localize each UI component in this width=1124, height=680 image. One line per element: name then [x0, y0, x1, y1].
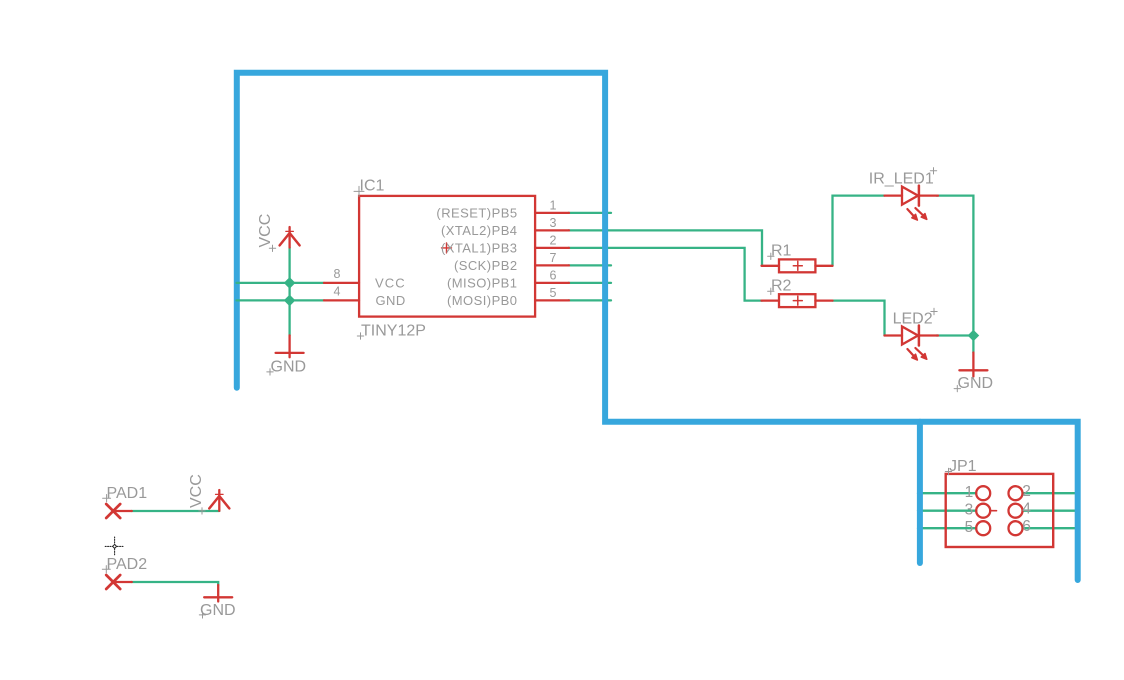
wire net PB0 pin5 to bus	[569, 299, 612, 301]
origin cross GND near PAD2	[199, 612, 205, 618]
svg-text:VCC: VCC	[375, 275, 406, 290]
IC1 pin 4	[324, 299, 359, 301]
origin cross R1	[768, 253, 774, 259]
LED2 arrowheads	[912, 354, 918, 360]
supply GND near PAD2	[204, 585, 232, 602]
origin cross R2	[768, 288, 774, 294]
JP1 pin circles	[976, 486, 1022, 535]
svg-text:PAD2: PAD2	[107, 556, 148, 573]
svg-text:8: 8	[334, 267, 341, 281]
wire JP1 pin5 to bus	[918, 527, 976, 529]
wire JP1 pin1 to bus	[918, 492, 976, 494]
IC1 pin 3	[535, 229, 569, 231]
svg-text:(RESET)PB5: (RESET)PB5	[436, 205, 517, 220]
bus main	[237, 73, 1078, 580]
svg-text:(SCK)PB2: (SCK)PB2	[454, 258, 518, 273]
svg-text:JP1: JP1	[949, 458, 977, 475]
wire VCC riser	[288, 248, 290, 283]
wire IR_LED1 cathode to GND	[937, 196, 974, 353]
svg-text:GND: GND	[271, 359, 307, 376]
bus branch	[917, 422, 923, 563]
wire net PB2 pin7 to bus	[569, 264, 612, 266]
svg-text:GND: GND	[958, 375, 994, 392]
svg-text:TINY12P: TINY12P	[361, 322, 426, 339]
IR_LED1 arrowheads	[912, 214, 918, 220]
svg-text:(XTAL2)PB4: (XTAL2)PB4	[441, 223, 518, 238]
origin cross VCC near IC1	[269, 245, 275, 251]
resistor R2	[762, 294, 833, 307]
origin cross IR_LED1	[930, 168, 936, 174]
svg-text:LED2: LED2	[893, 311, 933, 328]
junction pin4	[284, 295, 296, 307]
svg-text:R2: R2	[771, 278, 792, 295]
wire PAD2 to GND	[132, 582, 219, 585]
wire R2 to LED2	[833, 301, 885, 336]
wire LED2 cathode	[937, 334, 974, 336]
wire net PB4 pin3 to R1	[569, 230, 763, 265]
origin cross IC1	[354, 186, 364, 196]
supply GND near IC1	[276, 335, 304, 357]
svg-text:3: 3	[550, 216, 557, 230]
svg-text:4: 4	[1022, 501, 1031, 518]
svg-text:2: 2	[550, 234, 557, 248]
resistor R1	[762, 259, 833, 272]
origin cross TINY12P	[357, 333, 363, 339]
svg-text:5: 5	[965, 519, 973, 536]
origin cross JP1	[945, 468, 951, 474]
wire JP1 pin3 to bus	[918, 510, 976, 512]
svg-text:(XTAL1)PB3: (XTAL1)PB3	[441, 240, 518, 255]
origin cross PAD2	[102, 566, 110, 573]
wire PAD1 to VCC	[132, 510, 220, 512]
svg-text:R1: R1	[771, 243, 792, 260]
svg-text:VCC: VCC	[257, 214, 274, 248]
supply VCC near PAD1	[209, 490, 229, 511]
JP1 pin3 stub	[990, 510, 996, 512]
wire net GND pin4	[237, 299, 325, 301]
IC1 pin 7	[535, 264, 569, 266]
svg-text:6: 6	[1022, 518, 1030, 535]
junction LED2 cathode	[968, 330, 980, 342]
diode LED2	[885, 326, 939, 357]
svg-text:7: 7	[550, 251, 557, 265]
wire JP1 pin4 to bus	[1023, 510, 1079, 512]
svg-text:3: 3	[965, 502, 973, 519]
svg-text:1: 1	[550, 199, 557, 213]
IC1 pin 2	[535, 247, 569, 249]
IC1 box	[359, 196, 535, 317]
wire net PB5 pin1 to bus	[569, 212, 612, 214]
svg-text:GND: GND	[200, 602, 236, 619]
IC1 origin cross red	[442, 243, 452, 253]
supply VCC near IC1	[280, 227, 300, 248]
origin cross GND near IC1	[267, 369, 273, 375]
wire net PB1 pin6 to bus	[569, 282, 612, 284]
svg-text:VCC: VCC	[188, 474, 205, 508]
origin cross VCC near PAD1	[199, 508, 205, 514]
wire JP1 pin2 to bus	[1023, 492, 1079, 494]
svg-text:IC1: IC1	[360, 178, 385, 195]
svg-text:(MOSI)PB0: (MOSI)PB0	[447, 293, 518, 308]
wire net VCC pin8	[237, 282, 325, 284]
IC1 pin 1	[535, 212, 569, 214]
wire net PB3 pin2 to R2	[569, 248, 763, 301]
pad PAD2 cross	[106, 575, 132, 589]
IC1 pin 6	[535, 282, 569, 284]
svg-text:IR_LED1: IR_LED1	[869, 170, 934, 187]
diode IR_LED1	[885, 186, 939, 217]
svg-text:PAD1: PAD1	[107, 485, 148, 502]
wire R1 to IR_LED1	[833, 196, 885, 266]
wire GND dropper	[288, 283, 290, 336]
origin cross GND near LED2	[954, 385, 960, 391]
IC1 pin 5	[535, 299, 569, 301]
junction pin8	[284, 277, 296, 289]
svg-text:5: 5	[550, 286, 557, 300]
svg-text:2: 2	[1022, 483, 1030, 500]
origin cross LED2	[931, 308, 937, 314]
dotted cross near PAD2	[105, 537, 124, 556]
pad PAD1 cross	[106, 504, 132, 518]
svg-text:1: 1	[965, 484, 973, 501]
svg-text:4: 4	[334, 284, 341, 298]
wire JP1 pin6 to bus	[1023, 527, 1079, 529]
svg-text:(MISO)PB1: (MISO)PB1	[447, 275, 518, 290]
supply GND near LED2	[959, 353, 987, 377]
connector JP1 box	[946, 474, 1053, 547]
svg-text:6: 6	[550, 269, 557, 283]
gray origin crosses	[102, 168, 960, 618]
origin cross PAD1	[103, 495, 111, 502]
svg-text:GND: GND	[376, 293, 406, 308]
IC1 pin 8	[324, 282, 359, 284]
